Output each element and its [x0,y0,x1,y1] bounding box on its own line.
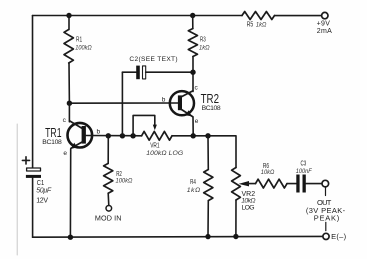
wire: VR1 to TR2 emitter, R4 and VR2 top [172,136,236,168]
svg-text:VR1: VR1 [150,143,160,150]
svg-text:LOG: LOG [242,204,255,211]
svg-text:10kΩ: 10kΩ [261,169,275,177]
terminal OUT [306,180,346,222]
resistor R6 10k [247,163,296,188]
svg-text:50μF: 50μF [36,188,52,195]
VR1 wiper loop wire [133,115,155,135]
resistor R2 100k [104,133,133,205]
C1 polarity + sign [22,159,29,161]
VR1 wiper arrowhead [153,125,157,131]
wire: TR1 base line to VR1 [86,135,142,137]
TR2 emitter lead with arrow [181,109,193,117]
svg-text:10kΩ: 10kΩ [241,197,255,204]
C3 left plate [296,175,299,193]
svg-text:BC108: BC108 [202,105,221,112]
svg-text:100kΩ LOG: 100kΩ LOG [146,150,183,157]
VR1 track (zigzag) [142,131,172,140]
svg-text:12V: 12V [36,197,48,204]
svg-text:1kΩ: 1kΩ [187,187,201,194]
capacitor C1 50uF 12V electrolytic [22,157,52,205]
svg-text:PEAK): PEAK) [314,214,340,223]
node: VR2 / 0V junction [233,234,238,239]
node: R1 / TR1 collector junction [67,101,72,106]
svg-text:R4: R4 [190,179,196,186]
wire: 0V bottom rail [33,235,323,238]
TR1 base bar [82,126,86,144]
wire: left rail (+9V down to C1) [32,16,34,169]
node: R3 / TR2 collector / C2 junction [190,70,195,75]
C3 right plate [303,175,306,193]
svg-text:1kΩ: 1kΩ [199,44,210,52]
OUT label leader [325,188,327,196]
svg-text:C1: C1 [37,180,45,188]
resistor R1 100k [64,13,92,103]
capacitor C2 (see text) [120,56,191,139]
potentiometer VR1 100k log [130,115,183,157]
VR2 track (zigzag) [232,168,241,201]
wire: TR1 emitter to 0V rail [69,149,71,237]
node: R4 / 0V junction [205,234,210,239]
node: TR1 emitter / 0V junction [68,235,73,240]
C2 right plate (hollow) [143,66,146,79]
resistor R3 1k [188,13,209,92]
capacitor C3 100n [296,161,322,193]
terminal E(-) [323,222,347,241]
svg-text:100kΩ: 100kΩ [116,177,133,185]
svg-text:b: b [97,128,101,135]
TR1 collector lead [68,103,70,122]
TR2 base bar [178,95,182,110]
E(-) label leader [325,222,327,230]
svg-text:R5: R5 [247,21,254,29]
wire: TR1 collector to TR2 base [69,102,177,104]
svg-text:2mA: 2mA [317,28,332,35]
wire: C1 to 0V rail [32,178,34,237]
terminal MOD IN [95,206,122,223]
resistor R5 1k [242,12,275,29]
svg-text:+9V: +9V [317,21,331,28]
transistor TR2 BC108 [162,84,221,136]
svg-text:e: e [63,150,67,157]
svg-text:BC108: BC108 [42,139,62,146]
TR1 emitter lead with arrow [71,142,83,148]
svg-text:R3: R3 [200,37,206,44]
transistor TR1 BC108 [42,103,100,157]
svg-text:100kΩ: 100kΩ [75,44,92,52]
svg-text:b: b [162,96,166,103]
svg-text:C2(SEE TEXT): C2(SEE TEXT) [129,56,177,63]
svg-text:100nF: 100nF [296,168,313,176]
wire: +9V top supply rail [33,15,243,17]
svg-text:1kΩ: 1kΩ [256,21,267,28]
svg-text:MOD IN: MOD IN [95,213,122,222]
svg-text:e: e [195,118,199,125]
node: TR2 emitter on base rail [191,133,196,138]
svg-text:E(–): E(–) [331,232,347,241]
VR2 wiper arrowhead [239,181,249,186]
svg-text:R1: R1 [76,37,83,44]
potentiometer VR2 10k log [232,168,256,240]
TR2 collector lead [181,91,194,98]
C2 left plate (solid) [136,66,140,80]
resistor R4 1k [187,133,213,239]
terminal +9V supply [317,12,333,35]
